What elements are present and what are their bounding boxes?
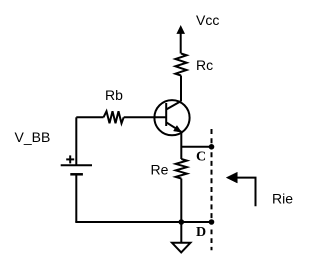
svg-text:Re: Re bbox=[151, 162, 169, 178]
node D dot bbox=[209, 219, 215, 225]
wire Re to bottom bbox=[180, 179, 182, 223]
wire collector to Rc bbox=[180, 76, 182, 102]
arrow Rie bbox=[226, 172, 255, 206]
junction dot bbox=[179, 219, 185, 225]
battery V_BB bbox=[61, 155, 92, 174]
dashed port line bbox=[211, 129, 213, 144]
svg-text:Rb: Rb bbox=[105, 87, 123, 103]
wire V_BB vertical bbox=[75, 117, 77, 165]
svg-text:V_BB: V_BB bbox=[15, 129, 51, 145]
svg-text:Rie: Rie bbox=[272, 190, 293, 206]
svg-text:C: C bbox=[196, 150, 206, 165]
power Vcc arrow bbox=[177, 26, 184, 53]
wire emitter to node C bbox=[181, 146, 211, 148]
transistor Q1 bbox=[154, 100, 189, 135]
wire Rb to base bbox=[124, 116, 167, 118]
resistor Re bbox=[176, 159, 187, 179]
svg-text:D: D bbox=[196, 225, 206, 240]
resistor Rc bbox=[175, 54, 186, 76]
svg-text:Vcc: Vcc bbox=[196, 12, 219, 28]
wire base bbox=[76, 116, 103, 118]
ground bbox=[172, 222, 190, 252]
resistor Rb bbox=[104, 111, 124, 123]
wire emitter down bbox=[180, 132, 182, 159]
wire battery to bottom bbox=[75, 174, 77, 222]
wire bottom bbox=[75, 221, 211, 223]
svg-text:Rc: Rc bbox=[196, 57, 213, 73]
node C dot bbox=[209, 144, 215, 150]
